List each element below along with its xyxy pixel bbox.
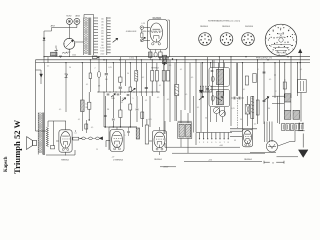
svg-text:9: 9 [285, 43, 286, 45]
svg-text:KURZ: KURZ [66, 16, 72, 18]
svg-text:7: 7 [224, 142, 225, 144]
svg-text:0,1: 0,1 [243, 89, 245, 91]
svg-text:0,1: 0,1 [121, 102, 123, 104]
svg-text:4V: 4V [234, 140, 237, 142]
svg-text:0,5: 0,5 [59, 109, 61, 111]
svg-text:1M: 1M [98, 86, 101, 88]
svg-text:0,25: 0,25 [108, 67, 111, 69]
svg-text:Triumph 52 W: Triumph 52 W [12, 119, 22, 174]
svg-text:2×REN904: 2×REN904 [113, 159, 124, 162]
svg-text:25: 25 [96, 149, 98, 151]
svg-text:50: 50 [272, 162, 275, 164]
svg-text:2: 2 [95, 68, 96, 70]
svg-text:REN904: REN904 [154, 159, 162, 161]
svg-text:0,1: 0,1 [86, 84, 88, 86]
svg-text:0,1: 0,1 [167, 99, 169, 101]
svg-text:0,1: 0,1 [159, 85, 161, 87]
svg-text:FREQUENZ 472: FREQUENZ 472 [256, 58, 273, 60]
svg-text:750: 750 [101, 42, 104, 44]
svg-text:0,1: 0,1 [300, 69, 302, 71]
svg-text:220: 220 [290, 130, 293, 132]
svg-text:LANG: LANG [75, 15, 81, 18]
svg-text:0,5: 0,5 [91, 127, 93, 129]
svg-text:0,25: 0,25 [231, 108, 234, 110]
svg-text:1250: 1250 [100, 48, 104, 50]
svg-text:4-WELLEN: 4-WELLEN [126, 31, 137, 33]
svg-text:0,1: 0,1 [124, 92, 126, 94]
svg-text:5: 5 [215, 142, 216, 144]
svg-text:SKALA: SKALA [278, 33, 285, 36]
svg-text:0,1: 0,1 [197, 107, 199, 109]
svg-text:0,5: 0,5 [157, 97, 159, 99]
svg-text:1: 1 [125, 135, 126, 137]
svg-text:RES964: RES964 [222, 26, 231, 28]
svg-text:580: 580 [101, 39, 104, 41]
svg-text:2M: 2M [107, 109, 110, 111]
svg-text:-220: -220 [208, 160, 212, 162]
svg-text:REN904: REN904 [151, 67, 159, 69]
svg-text:50: 50 [205, 118, 207, 120]
svg-text:100: 100 [101, 19, 104, 21]
svg-text:0,1: 0,1 [180, 69, 182, 71]
svg-text:6: 6 [219, 142, 220, 144]
svg-text:5: 5 [133, 98, 134, 100]
svg-text:50: 50 [69, 67, 71, 69]
svg-text:130: 130 [101, 22, 104, 24]
svg-text:500: 500 [105, 79, 108, 81]
svg-text:6: 6 [277, 43, 278, 45]
svg-text:1: 1 [199, 142, 200, 144]
svg-text:30: 30 [240, 119, 242, 121]
svg-text:3: 3 [207, 142, 208, 144]
svg-text:+4Ω: +4Ω [219, 145, 223, 147]
svg-text:4: 4 [258, 69, 259, 71]
svg-text:-1,5V: -1,5V [141, 23, 146, 25]
svg-text:4: 4 [211, 142, 212, 144]
svg-text:165: 165 [101, 25, 104, 27]
svg-text:0,1: 0,1 [74, 133, 76, 135]
svg-text:0,5: 0,5 [185, 94, 187, 96]
svg-text:TELEFUNKEN: TELEFUNKEN [276, 53, 286, 55]
svg-text:RES964: RES964 [61, 160, 69, 162]
svg-text:0,2: 0,2 [142, 77, 144, 79]
svg-text:REN904: REN904 [200, 26, 209, 28]
svg-text:0,25: 0,25 [148, 119, 151, 121]
svg-text:1500: 1500 [72, 54, 76, 56]
svg-text:270: 270 [101, 30, 104, 32]
svg-text:RÖHRENANSICHTEN (von unten): RÖHRENANSICHTEN (von unten) [208, 20, 240, 23]
svg-text:0,5: 0,5 [254, 124, 256, 126]
svg-text:0,1: 0,1 [78, 119, 80, 121]
svg-text:0,5: 0,5 [169, 65, 171, 67]
svg-text:0,5: 0,5 [145, 100, 147, 102]
svg-text:Kapsch: Kapsch [4, 156, 9, 172]
svg-text:ANT: ANT [51, 25, 56, 28]
svg-text:0,5: 0,5 [191, 77, 193, 79]
svg-text:0,5: 0,5 [47, 66, 49, 68]
svg-text:1600: 1600 [100, 51, 104, 53]
svg-text:8: 8 [228, 142, 229, 144]
svg-text:960: 960 [101, 45, 104, 47]
svg-text:350: 350 [101, 33, 104, 35]
svg-text:450: 450 [101, 36, 104, 38]
svg-text:REN904: REN904 [244, 159, 252, 161]
svg-text:RGN354: RGN354 [245, 26, 254, 28]
svg-text:0,5: 0,5 [269, 79, 271, 81]
svg-text:2M: 2M [85, 107, 88, 109]
svg-text:50: 50 [127, 73, 129, 75]
svg-text:30: 30 [268, 108, 270, 110]
svg-text:2: 2 [203, 142, 204, 144]
svg-text:1,5kΩ: 1,5kΩ [129, 58, 135, 60]
svg-text:2000: 2000 [100, 54, 104, 56]
svg-text:-2V: -2V [112, 157, 116, 159]
svg-text:210: 210 [101, 27, 104, 29]
svg-text:2: 2 [276, 91, 277, 93]
